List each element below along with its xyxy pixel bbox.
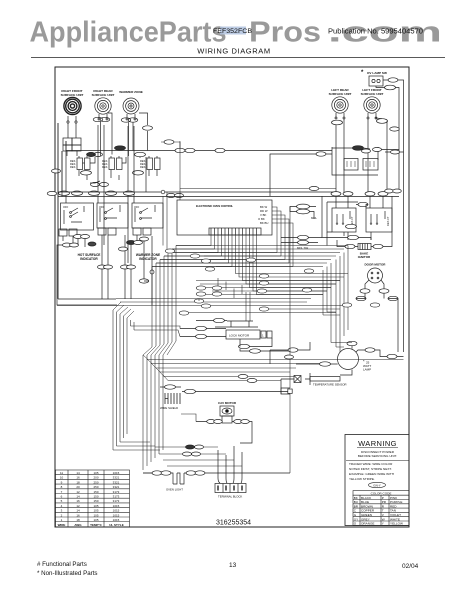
ellipse pair left of cav motor	[207, 420, 216, 424]
svg-text:1: 1	[262, 334, 264, 338]
indicator box 2 innards	[100, 205, 120, 222]
svg-text:3321: 3321	[113, 476, 120, 480]
bundle turn to lock motor	[113, 326, 180, 450]
ellipse below door motor left	[360, 289, 370, 293]
svg-text:MDL SW: MDL SW	[297, 246, 308, 250]
connector ellipse ov lamp 2	[385, 85, 396, 90]
connector ellipses warmer zone	[121, 118, 131, 122]
bottom ellipse pair b	[183, 452, 192, 456]
ellipse single below box3	[140, 237, 149, 241]
svg-text:14: 14	[76, 509, 80, 513]
svg-text:14: 14	[76, 495, 80, 499]
wire x180 riser top	[161, 142, 180, 151]
wires LR LF switches	[327, 196, 383, 240]
svg-text:* Non-Illustrated Parts: * Non-Illustrated Parts	[37, 570, 98, 577]
terminals left front	[368, 113, 376, 117]
label right rear surface unit	[92, 89, 115, 97]
terminal block wire hooks	[218, 446, 242, 483]
lock motor top bar	[215, 321, 258, 327]
svg-text:150: 150	[93, 495, 98, 499]
svg-text:DOOR MOTOR: DOOR MOTOR	[365, 263, 387, 267]
wire label ellipse (206,261)	[201, 259, 211, 263]
ellipse on right riser x399	[390, 127, 400, 131]
svg-text:105: 105	[93, 504, 98, 508]
wire label ellipse (264,309)	[259, 307, 269, 311]
svg-text:1015: 1015	[113, 504, 120, 508]
wire oven light runs	[143, 472, 290, 474]
terminals right front surface unit	[68, 116, 76, 121]
svg-text:EXAMPLE: GREEN WIRE WITH: EXAMPLE: GREEN WIRE WITH	[349, 472, 394, 476]
wire label ellipse (201,288)	[196, 286, 206, 290]
svg-text:TRACER WIRE: WIRE COLOR: TRACER WIRE: WIRE COLOR	[349, 462, 393, 466]
connector ellipse left rear	[332, 120, 343, 125]
svg-text:7: 7	[61, 490, 63, 494]
ellipse single mid	[139, 279, 149, 283]
ellipse above shield	[165, 385, 176, 389]
svg-text:105: 105	[93, 513, 98, 517]
svg-text:3321: 3321	[113, 485, 120, 489]
svg-text:UL STYLE: UL STYLE	[109, 523, 123, 527]
svg-text:3: 3	[61, 509, 63, 513]
svg-text:TEMPERATURE SENSOR: TEMPERATURE SENSOR	[313, 383, 347, 387]
svg-text:13: 13	[229, 562, 237, 569]
svg-text:OVEN LIGHT: OVEN LIGHT	[166, 488, 183, 492]
oven sensor probe	[305, 373, 310, 385]
EOC connector strip	[209, 228, 261, 235]
svg-text:18: 18	[76, 480, 80, 484]
wire label ellipse (309,271)	[304, 269, 314, 273]
ellipse right of lamp	[365, 348, 375, 352]
label warmer zone indicator	[136, 253, 160, 261]
ellipse left of lamp	[320, 362, 331, 366]
door motor wires	[365, 280, 384, 289]
label warmer zone	[119, 90, 143, 94]
bus ellipse row C	[89, 191, 100, 195]
wire left drop x57	[57, 236, 117, 305]
wire label ellipse (251,260)	[246, 258, 256, 262]
lock motor ellipse e	[250, 349, 261, 353]
wire warmer zone drops	[129, 122, 134, 156]
svg-text:WARMER ZONE: WARMER ZONE	[119, 90, 143, 94]
label left front surface unit	[361, 88, 384, 96]
svg-text:SURFACE UNIT: SURFACE UNIT	[92, 93, 115, 97]
connector ellipse top middle	[115, 146, 126, 150]
oven light lamp prongs	[171, 473, 186, 484]
ellipse on cross row	[309, 186, 319, 190]
ellipse mid link	[91, 182, 100, 186]
svg-text:RES: RES	[102, 165, 108, 169]
svg-text:16: 16	[76, 513, 80, 517]
ellipse pair below box3	[127, 241, 136, 245]
bus ellipse LR b	[343, 192, 353, 196]
bake ignitor box	[358, 244, 371, 250]
svg-text:ORANGE: ORANGE	[361, 522, 374, 526]
ellipse above lamp	[347, 341, 357, 345]
wires cav motor	[196, 422, 252, 444]
svg-text:150: 150	[93, 499, 98, 503]
svg-text:105: 105	[93, 509, 98, 513]
svg-text:Pros: Pros	[249, 17, 321, 49]
wire label ellipse (375,305)	[370, 303, 380, 307]
svg-text:NOTED FIRST, STRIPE NEXT.: NOTED FIRST, STRIPE NEXT.	[349, 467, 392, 471]
bracket component left	[281, 388, 290, 394]
EOC exit turns	[200, 253, 293, 267]
ellipse on run y380	[247, 378, 257, 382]
svg-text:3173: 3173	[113, 499, 120, 503]
svg-text:SURFACE UNIT: SURFACE UNIT	[361, 92, 384, 96]
connector ellipse ov lamp 1	[388, 78, 398, 82]
indicator box 3	[132, 203, 163, 228]
wire hook switch1 to bus	[83, 157, 141, 183]
svg-text:RES CT: RES CT	[386, 216, 390, 226]
EOC electronic oven control box	[177, 200, 272, 235]
color code table text	[354, 496, 403, 526]
wire label ellipse (195,256)	[190, 254, 200, 258]
coil right rear surface unit	[95, 98, 111, 114]
ov lamp switch box	[369, 76, 383, 86]
left front switch innards	[371, 211, 385, 222]
label left rear surface unit	[329, 88, 352, 96]
terminal block box	[215, 484, 246, 493]
bus ellipse y150 b	[185, 148, 195, 152]
left rear switch box	[332, 208, 356, 232]
wire label ellipse (201,294)	[196, 292, 206, 296]
left rear switch innards	[337, 211, 350, 222]
svg-text:105: 105	[93, 471, 98, 475]
svg-text:INDICATOR: INDICATOR	[80, 257, 98, 261]
svg-text:250: 250	[93, 480, 98, 484]
svg-text:SURFACE UNIT: SURFACE UNIT	[61, 93, 84, 97]
center horizontal bus wires	[57, 281, 344, 313]
svg-text:RES: RES	[70, 165, 76, 169]
svg-text:18: 18	[76, 518, 80, 522]
svg-text:IGNITOR: IGNITOR	[358, 255, 371, 259]
bake ignitor ellipse right	[373, 244, 383, 248]
wire label ellipse (199,301)	[194, 299, 204, 303]
svg-text:1015: 1015	[113, 513, 120, 517]
door motor circle	[368, 268, 383, 283]
wire gauge table	[56, 470, 130, 527]
ellipse pair right of loop	[385, 189, 394, 193]
wire mdl sw	[281, 238, 322, 243]
wire left rear drops	[336, 119, 344, 192]
svg-text:316255354: 316255354	[216, 520, 251, 527]
svg-text:12: 12	[76, 490, 80, 494]
svg-text:BK BU: BK BU	[260, 221, 268, 225]
cav motor box	[220, 406, 234, 416]
connector ellipse left front	[377, 119, 388, 124]
left column merge diagonals	[143, 341, 176, 355]
wire warmer zone to right riser	[139, 113, 148, 151]
wire bus verticals upper-left	[58, 123, 146, 299]
svg-text:1015: 1015	[113, 518, 120, 522]
ellipse right of switch 2	[135, 152, 146, 156]
warning subtitle	[358, 450, 397, 458]
ellipse upper right c	[373, 148, 382, 152]
svg-text:Publication No. 5995404570: Publication No. 5995404570	[328, 29, 423, 36]
wire upper right connections	[270, 148, 404, 196]
left front switch box	[366, 208, 392, 232]
ellipse pair right of cav motor	[234, 420, 243, 424]
bus ellipse LF a	[365, 192, 375, 196]
terminals left rear	[336, 113, 344, 117]
node junction circle	[161, 190, 165, 194]
ellipse left mid y348	[288, 348, 298, 352]
indicator box 1 innards	[64, 206, 84, 224]
ellipse pair mid left b	[121, 265, 130, 269]
indicator box3 sub blocks	[133, 228, 141, 235]
ellipse upper right b	[362, 149, 371, 153]
bus line y196	[58, 196, 399, 198]
lock motor contact squares	[261, 331, 266, 338]
svg-text:FEF352FCB: FEF352FCB	[213, 28, 252, 35]
svg-text:16: 16	[76, 499, 80, 503]
lower-run pickup diagonals	[143, 355, 168, 381]
svg-text:200: 200	[93, 476, 98, 480]
ellipse feed left	[316, 152, 326, 156]
dark label blob	[88, 242, 96, 246]
main diagram border	[55, 67, 409, 527]
lock motor ellipse a	[214, 318, 225, 322]
bus ellipse row D	[106, 191, 117, 195]
ellipse below door motor right	[379, 289, 389, 293]
watermark AppliancePartsPros.com	[30, 17, 443, 49]
warning box	[345, 435, 409, 526]
MDL switch pair lower	[298, 235, 309, 239]
coil warmer zone	[123, 98, 139, 114]
svg-text:11: 11	[60, 471, 63, 475]
wire left of ellipse	[270, 342, 310, 350]
wire label ellipse (217,288)	[212, 286, 222, 290]
svg-text:3173: 3173	[113, 490, 120, 494]
bottom ellipse pair a	[186, 445, 195, 449]
svg-text:# Functional Parts: # Functional Parts	[37, 561, 87, 568]
ellipse on border y171	[52, 169, 61, 173]
lock motor ellipse b	[196, 326, 207, 330]
footer functional parts	[37, 561, 98, 577]
wire ov lamp runs	[376, 80, 404, 352]
wire label ellipse (206,306)	[201, 304, 211, 308]
wire label ellipse (264,276)	[259, 274, 269, 278]
svg-text:WARNING: WARNING	[358, 439, 397, 448]
wires shield	[160, 387, 288, 392]
svg-text:1015: 1015	[113, 509, 120, 513]
wire sensor left	[270, 350, 294, 388]
terminal block right front	[63, 138, 72, 145]
long vertical x290	[281, 207, 290, 474]
ellipse lower left door motor	[356, 296, 366, 300]
oven light ellipse pair left	[152, 471, 162, 475]
lock motor ellipse d	[239, 344, 250, 348]
left rear upper switch	[344, 159, 358, 171]
wire MDL	[290, 207, 316, 220]
model number highlight	[220, 27, 246, 35]
MDL stacked ellipses	[297, 204, 310, 209]
svg-text:20: 20	[76, 485, 80, 489]
wire node mid	[144, 236, 152, 305]
ellipse on run y376	[238, 374, 248, 378]
warning divider	[346, 460, 409, 462]
wire label ellipse (307,290)	[302, 288, 312, 292]
bus ellipse LF b	[378, 192, 388, 196]
wire label ellipse (169,244)	[165, 249, 175, 253]
thermal fuse	[294, 376, 301, 383]
svg-text:4: 4	[61, 504, 63, 508]
right half horizontal runs lower	[148, 360, 404, 381]
oven light ellipse pair right	[186, 471, 196, 475]
terminals warmer zone	[127, 114, 135, 118]
ellipse below box2 gap	[119, 247, 128, 251]
bundle merge diagonals	[113, 302, 134, 318]
svg-text:TERMINAL BLOCK: TERMINAL BLOCK	[218, 495, 242, 499]
cav motor lower box	[222, 416, 232, 423]
wire label ellipse (262,291)	[257, 289, 267, 293]
svg-text:OFF: OFF	[63, 205, 69, 209]
svg-text:*: *	[361, 70, 364, 76]
long cross rows	[152, 246, 348, 267]
color code header	[353, 491, 409, 496]
svg-text:OFF: OFF	[134, 205, 140, 209]
svg-text:1015: 1015	[113, 471, 120, 475]
surface switch 1 (right front)	[70, 158, 90, 170]
svg-text:105: 105	[93, 518, 98, 522]
wire label ellipse (184,313)	[179, 311, 189, 315]
main bus line y150.5	[66, 150, 332, 152]
label hot surface indicator	[78, 253, 101, 261]
coil left front surface unit	[364, 97, 380, 113]
bus ellipse pair right of node	[167, 193, 176, 197]
wire bake ignitor	[337, 196, 392, 247]
surface switch 2 (right rear)	[102, 158, 122, 170]
bus ellipse y150 c	[215, 148, 225, 152]
svg-text:YELLOW: YELLOW	[390, 522, 403, 526]
ellipse below LR switch	[346, 224, 357, 228]
svg-text:TEMP°C: TEMP°C	[90, 523, 103, 527]
EOC right pin labels	[258, 205, 268, 225]
svg-text:16: 16	[76, 476, 80, 480]
ellipse pair mid left a	[98, 265, 107, 269]
ellipse lower right door motor	[388, 296, 398, 300]
wire LR bottom loop	[322, 196, 371, 246]
connector ellipse right x169	[164, 140, 174, 144]
indicator box 3 innards	[135, 205, 155, 222]
bus ellipse on border	[47, 191, 57, 195]
wire shield zigzag	[165, 393, 180, 404]
svg-text:CAV MOTOR: CAV MOTOR	[218, 401, 237, 405]
wire gauge table text	[58, 471, 124, 527]
terminals right rear	[99, 114, 107, 118]
ellipse upper right d	[391, 150, 400, 154]
svg-text:02/04: 02/04	[402, 563, 419, 570]
connector ellipse between switch boxes	[358, 202, 368, 206]
right vertical bus wires	[323, 246, 352, 353]
label 25 watt lamp	[363, 359, 371, 372]
wire label ellipse (264,283)	[259, 281, 269, 285]
tracer example ellipse	[369, 482, 386, 487]
bus ellipse row A	[59, 191, 70, 195]
label bake ignitor	[358, 252, 371, 260]
svg-text:WIRE: WIRE	[58, 523, 66, 527]
svg-text:14: 14	[76, 471, 80, 475]
coil left rear surface unit	[332, 97, 348, 113]
ellipse on x290 vertical	[285, 355, 294, 359]
wire right rear drops	[101, 113, 113, 156]
svg-text:LOCK MOTOR: LOCK MOTOR	[229, 334, 250, 338]
circle node mid	[150, 270, 154, 274]
bus ellipse row E	[124, 191, 135, 195]
svg-text:9: 9	[61, 480, 63, 484]
svg-text:INDICATOR: INDICATOR	[139, 257, 157, 261]
svg-text:Y: Y	[382, 522, 384, 526]
left border verticals	[58, 123, 116, 299]
ellipse far right of lamp	[387, 354, 397, 358]
left front upper switch	[363, 159, 378, 171]
wires door motor drops	[356, 293, 398, 352]
coil right front surface unit	[64, 97, 81, 114]
label right front surface unit	[61, 89, 84, 97]
svg-text:12: 12	[76, 504, 80, 508]
svg-text:WIRING DIAGRAM: WIRING DIAGRAM	[197, 47, 270, 56]
svg-text:ELECTRONIC OVEN CONTROL: ELECTRONIC OVEN CONTROL	[196, 205, 234, 208]
cav motor drop wire	[181, 414, 196, 422]
wires below box2 box3	[102, 235, 144, 299]
title separator line	[31, 57, 445, 59]
lock motor body	[226, 330, 260, 339]
svg-text:OV LAMP SW: OV LAMP SW	[367, 71, 387, 75]
connector ellipses right rear	[93, 117, 103, 121]
bus ellipse LR a	[331, 192, 341, 196]
dark ellipse upper right	[353, 146, 364, 151]
junction square x290	[288, 389, 292, 393]
svg-text:10: 10	[60, 476, 64, 480]
EOC right exit wires	[272, 207, 293, 267]
ellipse below LR switch 2	[348, 235, 359, 239]
label ov lamp sw	[361, 70, 387, 76]
left vertical bundle	[113, 310, 134, 450]
middle verticals below EOC	[163, 141, 250, 321]
wire label ellipse (347,305)	[342, 303, 352, 307]
ellipse right of switch 1	[87, 152, 96, 156]
bake ignitor ellipse left	[345, 244, 355, 248]
bus ellipse row B	[72, 191, 83, 195]
wire label ellipse (210,269)	[205, 267, 215, 271]
svg-text:150: 150	[93, 490, 98, 494]
svg-text:ApplianceParts: ApplianceParts	[30, 17, 227, 49]
svg-text:SURFACE UNIT: SURFACE UNIT	[329, 92, 352, 96]
lamp wires	[296, 346, 404, 375]
svg-text:3173: 3173	[113, 495, 120, 499]
second vertical bundle	[143, 355, 163, 470]
indicator box 2	[97, 203, 128, 228]
lock motor ellipse c	[196, 334, 207, 338]
svg-text:BEFORE SERVICING UNIT.: BEFORE SERVICING UNIT.	[358, 454, 397, 458]
bus line y192	[58, 191, 334, 193]
ellipse below switch 1	[81, 171, 92, 175]
cross rows to upper switch loop	[180, 188, 336, 190]
wires switch row	[79, 156, 157, 180]
svg-text:LAMP: LAMP	[363, 368, 371, 372]
svg-text:OFF: OFF	[99, 205, 105, 209]
indicator box2 sub blocks	[98, 228, 106, 235]
ellipse below switch 2	[133, 171, 144, 175]
bus ellipse y150 a	[175, 148, 185, 152]
wire label ellipse (217,294)	[212, 292, 222, 296]
svg-text:3321: 3321	[113, 480, 120, 484]
lock motor wires	[180, 321, 290, 352]
EOC pin drop wires	[152, 235, 348, 295]
ellipse pair below box1	[74, 235, 83, 239]
wire right front drops	[67, 123, 77, 156]
